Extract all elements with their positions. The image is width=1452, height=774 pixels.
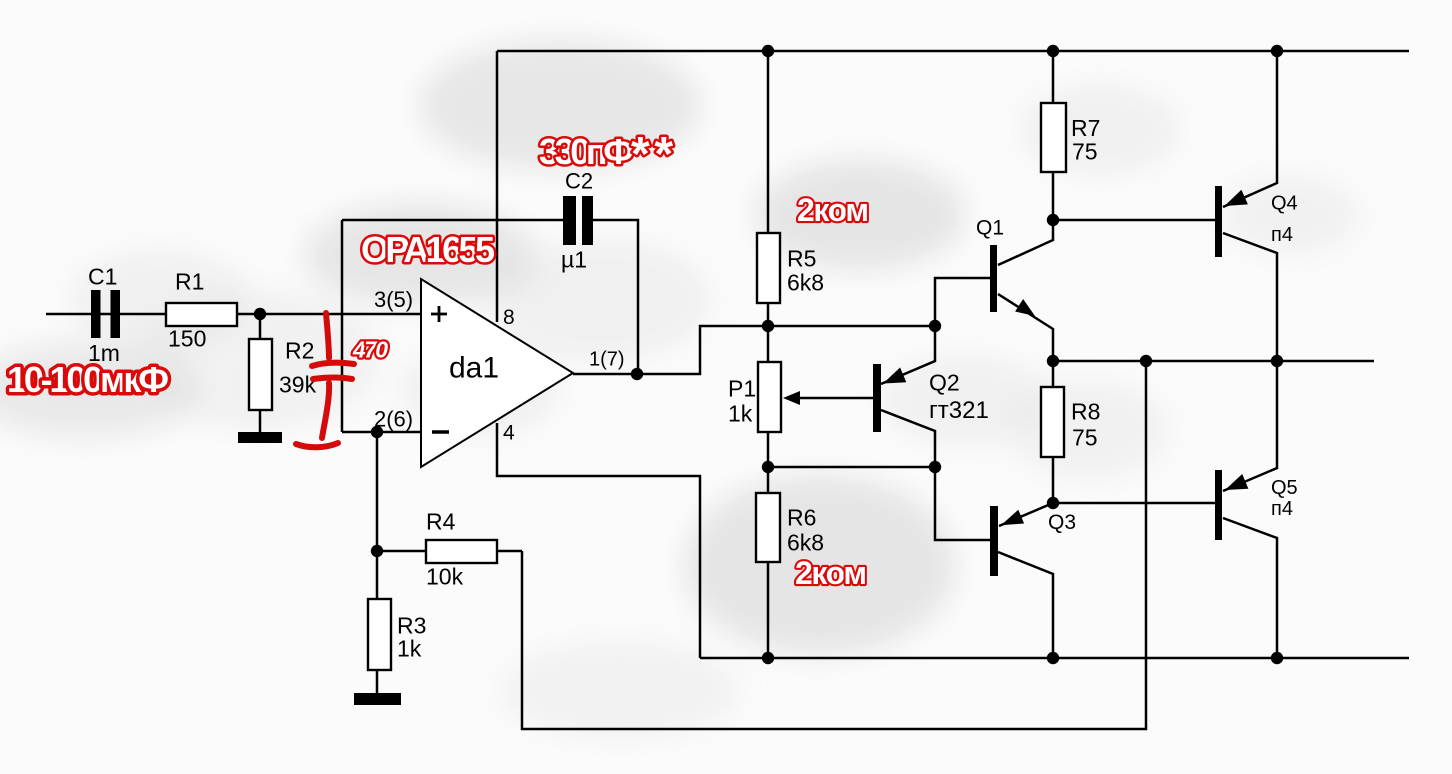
svg-text:3(5): 3(5) <box>374 287 413 312</box>
svg-text:Q5: Q5 <box>1271 477 1298 499</box>
wire op-amp pin 4 supply <box>497 423 700 658</box>
transistor Q3 emitter arrow <box>1001 510 1024 526</box>
wire inverting input <box>342 431 421 434</box>
wire op-amp pin 8 supply <box>496 51 499 322</box>
node Q4 emitter top rail junction <box>1271 45 1283 57</box>
wire C2 right to output node <box>593 220 638 374</box>
node R5/P1 junction <box>762 320 774 332</box>
svg-text:Q4: Q4 <box>1271 193 1298 215</box>
transistor Q1 emitter arrow <box>1015 299 1035 316</box>
potentiometer P1 wiper arrow <box>783 391 800 405</box>
wire P1 top <box>767 326 770 362</box>
wire Q1 base <box>935 278 990 326</box>
node R6 bottom rail junction <box>762 652 774 664</box>
svg-text:Q1: Q1 <box>976 217 1004 240</box>
transistor Q5 emitter arrow <box>1225 474 1248 490</box>
capacitor C1 <box>91 290 120 338</box>
transistor Q4 base bar <box>1215 186 1222 257</box>
svg-text:39k: 39k <box>279 372 317 398</box>
wire R6 bottom <box>767 562 770 658</box>
svg-text:2ком: 2ком <box>795 555 867 591</box>
wire R7 top <box>1052 51 1055 103</box>
resistor R2 <box>249 339 272 410</box>
node input/R2 junction <box>254 308 266 320</box>
svg-text:R1: R1 <box>175 269 204 295</box>
op-amp plus input symbol <box>431 306 447 322</box>
svg-text:гт321: гт321 <box>929 397 989 424</box>
svg-text:R4: R4 <box>426 509 456 535</box>
transistor Q4 emitter arrow <box>1225 190 1248 206</box>
node Q3 collector bottom rail junction <box>1047 652 1059 664</box>
op-amp DA1 triangle <box>421 279 573 467</box>
resistor R8 <box>1041 387 1064 457</box>
wire feedback box left vertical (C2 to inverting input) <box>341 220 344 432</box>
wire R6 top <box>767 467 770 493</box>
wire R5 top <box>767 51 770 233</box>
resistor R7 <box>1041 103 1066 172</box>
wire Q2 base from P1 wiper <box>797 397 873 400</box>
node feedback/output rail junction <box>1140 355 1152 367</box>
svg-text:1k: 1k <box>397 636 422 662</box>
wire Q3 base <box>935 467 990 540</box>
wire R8 top <box>1052 361 1055 387</box>
node Q5 collector bottom rail junction <box>1271 652 1283 664</box>
svg-text:75: 75 <box>1072 425 1098 451</box>
svg-text:µ1: µ1 <box>561 247 587 273</box>
svg-text:1k: 1k <box>728 401 753 427</box>
node R7 top rail junction <box>1047 45 1059 57</box>
svg-text:10k: 10k <box>426 564 464 590</box>
resistor R6 <box>756 493 780 562</box>
svg-text:п4: п4 <box>1271 224 1293 246</box>
wire C2 left horizontal <box>342 219 563 222</box>
svg-text:Q2: Q2 <box>929 370 960 396</box>
svg-text:R7: R7 <box>1071 115 1100 141</box>
node Q4/Q5 output rail junction <box>1271 355 1283 367</box>
wire Q5 collector <box>1223 518 1277 658</box>
svg-text:330пФ: 330пФ <box>539 131 634 172</box>
transistor Q5 base bar <box>1215 470 1222 540</box>
node R8/Q3/Q5 junction <box>1047 497 1059 509</box>
svg-text:150: 150 <box>168 326 206 352</box>
svg-text:R2: R2 <box>285 338 314 364</box>
svg-text:10-100мкФ: 10-100мкФ <box>7 359 169 400</box>
wire Q3 collector <box>998 552 1053 658</box>
ground (R2) <box>238 432 282 443</box>
wire op-amp output <box>573 326 935 374</box>
transistor Q1 base bar <box>990 245 997 312</box>
resistor R1 <box>166 303 237 326</box>
svg-text:6k8: 6k8 <box>787 270 824 296</box>
wire Q5 emitter <box>1223 361 1277 491</box>
wire feedback loop bottom <box>522 361 1146 729</box>
svg-text:C1: C1 <box>88 264 117 290</box>
wire output rail <box>1053 360 1374 363</box>
capacitor C2 <box>563 196 593 245</box>
svg-text:2ком: 2ком <box>797 192 869 228</box>
svg-text:75: 75 <box>1072 139 1098 165</box>
resistor R5 <box>757 233 780 303</box>
svg-text:R8: R8 <box>1071 399 1100 425</box>
svg-text:4: 4 <box>503 422 515 445</box>
svg-text:OPA1655: OPA1655 <box>361 229 495 270</box>
annotation hand-drawn capacitor 470pF <box>296 313 354 447</box>
wire Q1 emitter <box>998 294 1053 361</box>
wire node row P1 bottom to Q2 collector <box>768 466 935 469</box>
wire bottom supply rail <box>700 657 1409 660</box>
node R3/R4 junction <box>371 545 383 557</box>
wire Q2 emitter <box>881 326 935 384</box>
wire input line <box>46 313 421 316</box>
svg-text:п4: п4 <box>1271 498 1293 520</box>
transistor Q2 emitter arrow <box>883 368 906 384</box>
svg-text:P1: P1 <box>728 376 756 402</box>
op-amp minus input symbol <box>432 430 449 433</box>
wire R8 bottom <box>1052 457 1055 503</box>
potentiometer P1 body <box>758 362 781 432</box>
transistor Q2 base bar <box>873 364 881 432</box>
wire R7 bottom <box>1052 172 1055 220</box>
svg-text:Q3: Q3 <box>1048 511 1076 534</box>
wire Q1 collector <box>998 220 1053 265</box>
svg-text:470: 470 <box>352 337 388 363</box>
svg-text:R6: R6 <box>787 505 816 531</box>
wire Q4 base <box>1053 219 1215 222</box>
svg-text:2(6): 2(6) <box>374 407 413 432</box>
node inverting input junction <box>371 426 383 438</box>
node R7/Q1/Q4 junction <box>1047 214 1059 226</box>
svg-text:R5: R5 <box>787 246 816 272</box>
ground (R3) <box>354 693 401 705</box>
wire Q2 collector <box>881 410 935 468</box>
wire R4 right <box>497 550 522 553</box>
wire R3 bottom to ground <box>376 670 379 693</box>
svg-text:C2: C2 <box>565 169 593 194</box>
wire R2 branch down <box>259 314 262 432</box>
resistor R3 <box>368 599 391 670</box>
wire top supply rail <box>497 50 1409 53</box>
node R5 top rail junction <box>762 45 774 57</box>
wire P1 bottom <box>767 432 770 467</box>
wire R5 bottom <box>767 303 770 326</box>
wire R3 top <box>376 551 379 599</box>
svg-text:da1: da1 <box>449 352 499 385</box>
wire inverting node down to R3/R4 node <box>376 432 379 551</box>
svg-text:6k8: 6k8 <box>787 530 824 556</box>
node Q1 base / Q2 emitter junction <box>929 320 941 332</box>
wire Q3 emitter <box>999 503 1053 526</box>
wire Q5 base <box>1053 502 1215 505</box>
svg-text:1(7): 1(7) <box>589 349 625 371</box>
node op-amp output junction <box>631 368 643 380</box>
node P1/R6 junction <box>762 461 774 473</box>
wire Q4 collector <box>1223 233 1277 361</box>
svg-text:8: 8 <box>503 306 515 329</box>
node output rail left junction <box>1047 355 1059 367</box>
wire R4 left <box>377 550 426 553</box>
resistor R4 <box>426 540 497 563</box>
wire Q4 emitter <box>1223 51 1277 207</box>
transistor Q3 base bar <box>990 506 998 576</box>
node Q2 collector / Q3 base junction <box>929 461 941 473</box>
